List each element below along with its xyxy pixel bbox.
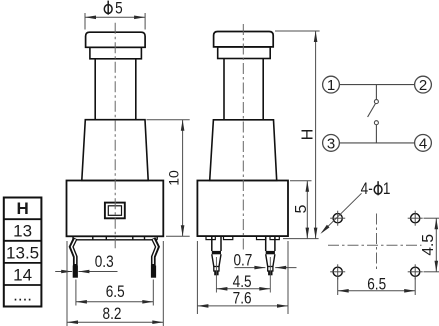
leader 4-φ1: [320, 180, 390, 234]
bottom view horizontal centerline: [328, 244, 422, 246]
front view right leg: [153, 238, 157, 266]
svg-text:8.2: 8.2: [103, 305, 122, 324]
H table: [4, 198, 42, 307]
schematic terminal 1: [323, 76, 340, 94]
dimension 10: [147, 120, 190, 237]
front view left leg: [71, 238, 75, 266]
side view body: [197, 181, 288, 237]
front view center hole inner: [108, 206, 121, 216]
front view stem: [95, 59, 136, 120]
svg-text:10: 10: [165, 170, 181, 186]
dimension 4.5 bottom view: [420, 218, 439, 272]
dimension 6.5 bottom view: [338, 275, 416, 295]
svg-text:4-: 4-: [361, 180, 373, 199]
svg-text:6.5: 6.5: [106, 283, 125, 302]
svg-text:H: H: [300, 129, 317, 141]
schematic lower contact: [374, 121, 378, 125]
svg-text:2: 2: [419, 77, 427, 94]
side view right pin: [266, 236, 275, 292]
schematic terminal 4: [415, 135, 432, 153]
side view tapered neck: [210, 120, 277, 181]
bottom view top-right hole: [408, 211, 423, 226]
dimension 5: [290, 181, 312, 239]
svg-text:13: 13: [13, 222, 32, 241]
schematic terminal 3: [323, 135, 340, 153]
schematic wire to upper contact: [375, 85, 377, 100]
bottom view bottom-left hole: [330, 264, 345, 279]
svg-text:13.5: 13.5: [6, 244, 39, 263]
front view cap: [86, 32, 146, 47]
bottom view top-left hole: [330, 211, 345, 226]
side view cap: [214, 32, 274, 47]
front view tapered neck: [82, 120, 148, 181]
front view body: [67, 181, 164, 237]
schematic terminal 2: [415, 76, 432, 94]
schematic wire 3-4: [339, 142, 414, 144]
dimension H: [275, 31, 320, 239]
bottom view bottom-right hole: [408, 264, 423, 279]
side view left pin: [212, 236, 221, 292]
svg-text:1: 1: [327, 77, 335, 94]
svg-text:14: 14: [13, 266, 32, 285]
schematic upper contact: [374, 100, 378, 104]
svg-text:H: H: [16, 199, 28, 218]
dimension 7.6: [197, 241, 288, 314]
svg-text:6.5: 6.5: [367, 275, 386, 294]
front view centerline: [114, 23, 116, 250]
side view stem: [224, 59, 263, 120]
side view bottom tabs: [206, 236, 215, 240]
schematic wire 1-2: [339, 84, 414, 86]
dimension 4.5 side: [216, 273, 270, 292]
front view bottom strip: [73, 239, 157, 241]
dimension 0.7: [233, 251, 296, 270]
svg-text:4.5: 4.5: [420, 234, 437, 256]
svg-text:1: 1: [383, 180, 391, 199]
svg-text:7.6: 7.6: [233, 289, 252, 308]
front view collar: [90, 47, 141, 59]
side view centerline: [242, 24, 244, 250]
svg-text:4: 4: [419, 135, 427, 152]
front view center hole outer: [105, 203, 125, 219]
side view collar: [218, 47, 271, 59]
svg-text:0.7: 0.7: [233, 251, 252, 270]
svg-text:0.3: 0.3: [95, 253, 114, 272]
schematic wire from lower contact: [375, 125, 377, 143]
dimension φ5: [85, 0, 145, 30]
dimension 6.5 front: [76, 280, 153, 306]
svg-text:5: 5: [293, 204, 310, 213]
svg-text:....: ....: [13, 286, 32, 305]
dimension 0.3: [55, 253, 117, 274]
svg-text:3: 3: [327, 135, 335, 152]
dimension 8.2: [67, 241, 163, 326]
schematic switch lever: [368, 104, 376, 117]
bottom view vertical centerline: [376, 214, 378, 272]
svg-text:5: 5: [115, 0, 123, 18]
